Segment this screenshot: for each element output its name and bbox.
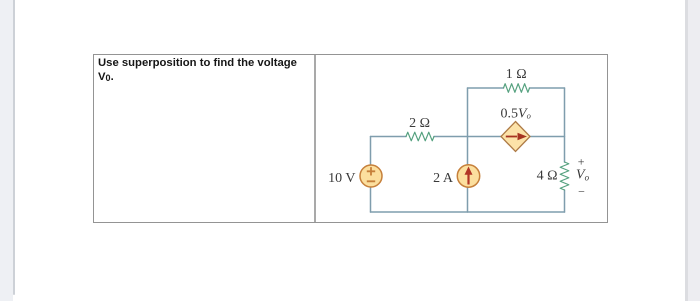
problem table box bbox=[93, 54, 608, 223]
wire center vertical (2A branch) bbox=[467, 88, 469, 212]
svg-text:2 Ω: 2 Ω bbox=[409, 116, 430, 131]
cell divider bbox=[314, 55, 316, 222]
right shadow line bbox=[685, 0, 688, 301]
dependent source 0.5Vo diamond bbox=[501, 122, 530, 152]
svg-text:−: − bbox=[578, 185, 585, 199]
resistor 2ohm zigzag bbox=[406, 132, 434, 141]
wire middle horizontal left segment bbox=[371, 136, 407, 138]
wire top horizontal right segment bbox=[530, 87, 565, 89]
wire top horizontal left segment bbox=[468, 87, 504, 89]
resistor 4ohm zigzag bbox=[560, 162, 569, 190]
voltage source 10V circle bbox=[360, 165, 382, 187]
wire right vertical lower segment bbox=[564, 190, 566, 212]
svg-text:2 A: 2 A bbox=[433, 171, 454, 186]
right page gutter strip bbox=[688, 0, 700, 301]
question text bbox=[98, 57, 310, 85]
resistor 1ohm zigzag bbox=[504, 84, 530, 93]
wire bottom horizontal bbox=[371, 211, 565, 213]
wire left vertical (10V branch) bbox=[370, 137, 372, 213]
current source 2A circle bbox=[457, 165, 479, 187]
left page gutter strip bbox=[0, 0, 13, 301]
svg-text:1 Ω: 1 Ω bbox=[506, 67, 527, 82]
left card edge line bbox=[13, 0, 15, 295]
svg-text:0.5Vo: 0.5Vo bbox=[501, 106, 531, 121]
svg-text:10 V: 10 V bbox=[328, 171, 355, 186]
svg-text:Vo: Vo bbox=[576, 167, 590, 182]
svg-text:+: + bbox=[578, 154, 585, 168]
wire right vertical upper segment bbox=[564, 88, 566, 162]
svg-text:4 Ω: 4 Ω bbox=[537, 169, 558, 184]
wire middle horizontal right segment bbox=[434, 136, 565, 138]
